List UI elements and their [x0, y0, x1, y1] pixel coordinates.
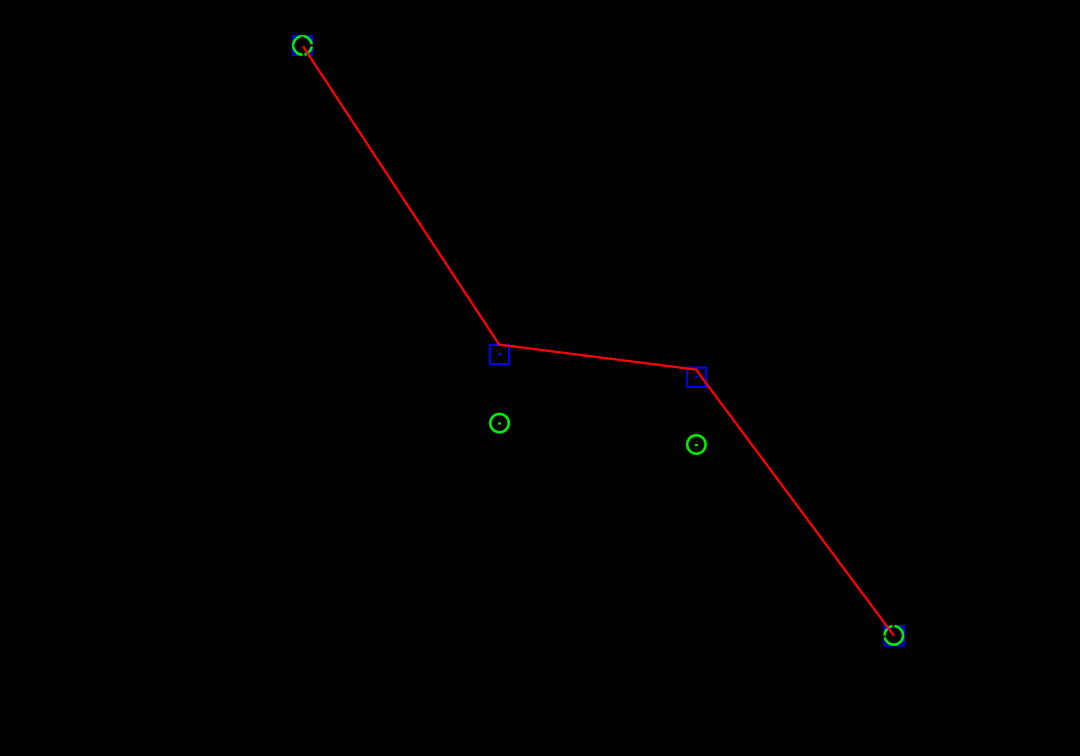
- red data polyline: [303, 46, 894, 636]
- green circle marker C4 (black filled): [885, 626, 903, 644]
- green circle marker C2: [490, 414, 508, 432]
- blue square dot S2: [498, 353, 501, 355]
- blue square marker S1: [293, 36, 312, 55]
- black plus notch P4 top arm: [893, 624, 895, 629]
- blue square marker S3: [687, 368, 706, 388]
- blue square marker S4: [884, 626, 903, 645]
- green circle dot C3: [695, 444, 698, 446]
- black plus notch P1 center: [302, 45, 304, 47]
- green circle marker C3: [687, 435, 705, 453]
- blue square dot S3: [695, 376, 698, 378]
- black plus notch P1 bottom arm: [302, 51, 304, 58]
- black plus notch P4 left arm: [882, 635, 886, 637]
- green circle marker C1 (black filled): [293, 36, 311, 54]
- black plus notch P1 left gap: [294, 44, 297, 46]
- black plus notch P1 top gap: [301, 37, 304, 40]
- blue square marker S2: [490, 345, 509, 364]
- black plus notch P1 right arm: [306, 44, 315, 46]
- green circle dot C2: [498, 422, 501, 424]
